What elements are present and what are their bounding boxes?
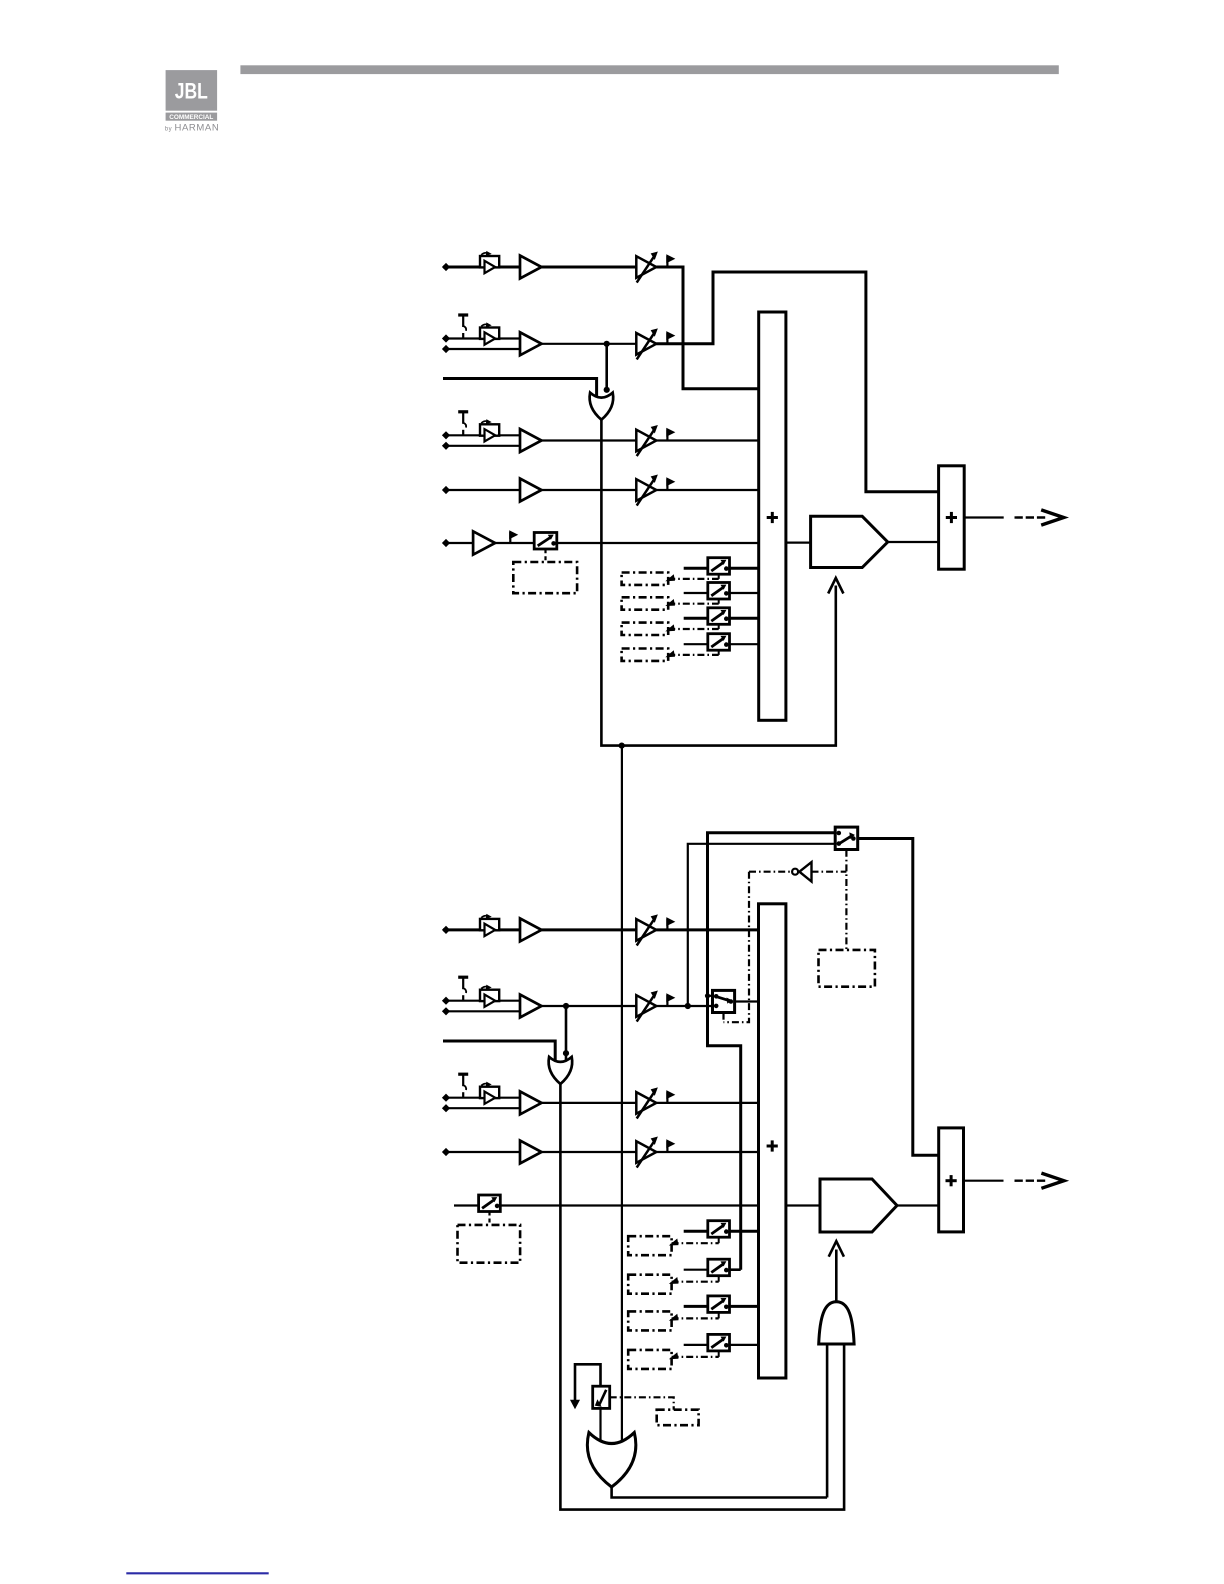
wire A ch3 input- line — [443, 445, 520, 447]
wire A ch2 tap to OR gate — [605, 344, 608, 390]
wire B ch2 tap to OR gate — [565, 1006, 568, 1060]
JBL logo square — [166, 70, 218, 111]
wire A aux input to buffer — [443, 542, 473, 544]
fader B4 (level control) — [636, 1137, 657, 1167]
node A ch2 tap junction — [604, 341, 610, 347]
wire A ch2 fader to output summer (up-over path) — [656, 272, 938, 492]
summing bus B (mix rectangle) — [759, 904, 786, 1378]
wire A ch1 fader to bus (down and right) — [656, 267, 758, 389]
wire B ch3 input- line — [443, 1107, 520, 1109]
dash-dot B aux4 control link — [672, 1356, 719, 1358]
arrow A aux1 control — [667, 575, 675, 581]
wire A aux2 pot to bus — [730, 592, 759, 594]
wire A aux3 pot to bus — [730, 617, 759, 620]
node A ch3 input+ terminal — [443, 432, 449, 438]
wire B ch1 fader to bus — [656, 928, 758, 931]
dash-dot B aux1 control link — [672, 1242, 719, 1244]
dash stem B5 pot control — [488, 1212, 490, 1225]
flag A3 (mute indicator) — [667, 429, 674, 441]
wire B aux1 source stub — [684, 1230, 708, 1233]
arrow B remote mute input (down) — [571, 1400, 579, 1408]
label box A5 (dash-dot) — [513, 562, 577, 593]
ducker A (priority attenuator) — [811, 516, 888, 567]
arrow A aux3 control — [667, 625, 675, 631]
node B ch2 tap junction (OR) — [563, 1003, 569, 1009]
wire A ch4 preamp to fader — [542, 489, 637, 491]
wire B ch3 input+ line — [443, 1097, 520, 1099]
phantom switch B2 — [458, 977, 468, 1001]
wire B master output (dashed) — [1015, 1179, 1048, 1181]
wire A ch3 preamp to fader — [542, 439, 637, 441]
dash-dot B aux2 control link — [672, 1281, 719, 1283]
arrow A aux4 control — [667, 651, 675, 657]
aux pot A3 — [708, 608, 730, 625]
wire B ch3 preamp to fader — [542, 1102, 637, 1104]
node A ch1 input terminal — [443, 264, 449, 270]
node B ch2 riser junction — [685, 1003, 691, 1009]
footer blue rule — [126, 1572, 268, 1574]
stub A aux1 pot control — [718, 574, 720, 579]
node B ch2 input+ terminal — [443, 998, 449, 1004]
node B ch3 input+ terminal — [443, 1095, 449, 1101]
dash-dot A aux3 control link — [668, 628, 719, 630]
label box B remote mute (dash-dot) — [657, 1410, 699, 1426]
wire B aux4 pot to bus — [730, 1344, 759, 1346]
wire B aux4 source stub — [684, 1344, 708, 1346]
buffer amp A5 — [473, 531, 495, 554]
wire B ch2 input- line — [443, 1010, 520, 1012]
dash-dot A aux1 control link — [668, 578, 719, 580]
dash-dot A aux4 control link — [668, 654, 719, 656]
gate box A1 — [480, 251, 499, 273]
stub B aux3 pot control — [718, 1312, 720, 1318]
gate box B3 — [480, 1082, 499, 1104]
wire A ch4 input line — [443, 489, 520, 491]
wire B aux3 source stub — [684, 1305, 708, 1308]
wire A ch3 input+ line — [443, 434, 520, 436]
fader A4 (level control) — [636, 475, 657, 505]
flag B4 (mute indicator) — [667, 1140, 674, 1152]
node A aux direct input terminal — [443, 540, 449, 546]
wire A ch3 fader to bus — [656, 439, 758, 441]
by HARMAN wordmark — [165, 122, 220, 133]
wire B ch1 preamp to fader — [542, 928, 637, 931]
gate box B1 — [480, 914, 499, 936]
dash-dot B remote mute control — [610, 1397, 674, 1409]
dome OR B (control combiner) — [819, 1302, 854, 1344]
output summer B — [939, 1128, 964, 1232]
stub B aux1 pot control — [718, 1237, 720, 1243]
wire A pot to bus — [557, 542, 759, 544]
arrow B ducker control (up chevron) — [829, 1241, 844, 1257]
priority switch B lower (selector box) — [713, 990, 735, 1012]
node A ch2 input- terminal — [443, 346, 449, 352]
fader A1 (level control) — [636, 252, 657, 282]
wire A link to section B (long vertical) — [621, 746, 623, 1446]
label box B aux4 (dash-dot) — [628, 1350, 671, 1369]
stub B riser to lower switch upper contact — [708, 995, 713, 997]
node A ch3 input- terminal — [443, 443, 449, 449]
wire A ch2 input+ line — [443, 337, 520, 339]
wire B ch2 preamp to fader — [542, 1005, 637, 1007]
dash-dot B inverter out to junction — [812, 871, 847, 873]
node B riser tee junction — [705, 993, 710, 998]
preamp B2 (differential) — [520, 995, 542, 1018]
level pot A5 — [534, 533, 557, 550]
node B ch2 input- terminal — [443, 1008, 449, 1014]
flag A4 (mute indicator) — [667, 478, 674, 490]
wire A aux4 pot to bus — [730, 643, 759, 645]
OR gate A (mute logic) — [590, 393, 614, 420]
dash-dot B override to upper switch — [845, 850, 847, 950]
flag B1 (mute indicator) — [667, 918, 674, 930]
summing bus A (mix rectangle) — [759, 312, 786, 720]
wire A ch2 preamp to fader — [542, 343, 637, 345]
dash-dot B inverter input link — [749, 871, 792, 873]
svg-text:JBL: JBL — [175, 78, 208, 103]
bottom OR gate B (link combiner) — [587, 1433, 636, 1488]
stub B aux4 pot control — [718, 1351, 720, 1357]
wire B aux input to level pot — [454, 1204, 479, 1206]
node A OR gate input junction — [604, 387, 610, 393]
wire B aux2 pot to music riser — [730, 1268, 741, 1271]
aux pot A1 — [708, 558, 730, 575]
wire B master output (solid) — [964, 1180, 1004, 1182]
wire A aux2 source stub — [684, 592, 708, 594]
arrow A master output — [1041, 510, 1064, 525]
wire A ch4 fader to bus — [656, 489, 758, 491]
label box B override (dash-dot) — [819, 950, 875, 987]
level pot B5 — [479, 1195, 501, 1212]
arrow B aux2 control — [670, 1278, 678, 1284]
aux pot B2 — [708, 1259, 730, 1276]
fader A3 (level control) — [636, 426, 657, 456]
header gray bar — [240, 65, 1058, 74]
preamp A3 (differential) — [520, 429, 542, 452]
phantom switch A3 — [458, 412, 468, 436]
wire A ch1 preamp to fader — [542, 266, 637, 269]
label box B aux3 (dash-dot) — [628, 1311, 671, 1330]
wire A OR output to ducker control — [601, 420, 835, 746]
inverter B (control logic) — [792, 862, 811, 881]
wire B OR output to dome OR right leg — [560, 1084, 844, 1510]
fader B3 (level control) — [636, 1088, 657, 1118]
label box A aux1 (dash-dot) — [622, 573, 669, 585]
preamp B3 (differential) — [520, 1091, 542, 1114]
wire B ch3 fader to bus — [656, 1102, 758, 1104]
plus symbol A output summer — [946, 512, 957, 523]
label box A aux2 (dash-dot) — [622, 597, 669, 609]
wire A ch1 input to gate box — [443, 266, 520, 269]
preamp A2 (differential) — [520, 332, 542, 355]
wire B ducker control shaft — [835, 1250, 838, 1302]
wire B ch4 input line — [443, 1151, 520, 1153]
node A link junction — [619, 743, 625, 749]
wire B ducker to output summer — [897, 1204, 939, 1206]
plus symbol B bus — [767, 1140, 778, 1151]
wire B priority switch output to output summer — [858, 839, 939, 1156]
wire B bus output to ducker — [786, 1204, 820, 1206]
preamp A4 — [520, 479, 542, 502]
node A ch4 input terminal — [443, 487, 449, 493]
ducker B (priority attenuator) — [820, 1179, 897, 1232]
label box A aux3 (dash-dot) — [622, 623, 669, 635]
arrow B master output — [1041, 1173, 1064, 1188]
wire B bottom OR output to dome left leg — [612, 1487, 828, 1498]
wire A buffer to level pot — [495, 542, 534, 544]
wire B pot to bus — [500, 1204, 758, 1206]
stub A aux3 pot control — [718, 624, 720, 629]
stub B aux2 pot control — [718, 1276, 720, 1282]
wire B aux2 source stub — [684, 1269, 708, 1271]
wire B ch4 preamp to fader — [542, 1151, 637, 1153]
arrow A ducker control (up chevron) — [828, 578, 843, 594]
wire A page-mute input (thick) to OR gate — [443, 379, 597, 399]
arrow B aux3 control — [670, 1315, 678, 1321]
fader A2 (level control) — [636, 329, 657, 359]
phantom switch A2 — [458, 315, 468, 339]
wire B remote pot to bottom OR — [599, 1408, 601, 1446]
gate box A3 — [480, 420, 499, 442]
stub A aux2 pot control — [718, 599, 720, 604]
wire A aux4 source stub — [684, 643, 708, 645]
wire B page-mute input (thick) to OR gate — [443, 1041, 555, 1063]
wire B dome left leg — [826, 1344, 829, 1498]
fader B2 (level control) — [636, 991, 657, 1021]
label box B aux1 (dash-dot) — [628, 1236, 671, 1255]
node B OR gate input junction — [563, 1050, 569, 1056]
label box B5 (dash-dot) — [458, 1225, 521, 1263]
wire A ducker to output summer — [888, 541, 939, 543]
flag A2 (mute indicator) — [667, 332, 674, 344]
aux pot B4 — [708, 1334, 730, 1351]
aux pot A4 — [708, 634, 730, 651]
wire B aux1 pot to bus — [730, 1230, 759, 1233]
OR gate B (mute logic) — [549, 1057, 573, 1084]
dash-dot B lower switch control stub — [722, 1013, 724, 1023]
wire B ch2 input+ line — [443, 1000, 520, 1002]
aux pot B3 — [708, 1296, 730, 1313]
arrow B aux4 control — [670, 1353, 678, 1359]
wire B ch4 fader to bus — [656, 1151, 758, 1153]
aux pot A2 — [708, 583, 730, 600]
output summer A — [939, 466, 965, 569]
dash stem A5 pot control — [544, 549, 546, 562]
fader B1 (level control) — [636, 915, 657, 945]
flag A5 (mute indicator) — [510, 531, 517, 543]
wire B aux3 pot to bus — [730, 1305, 759, 1308]
wire A aux1 source stub — [684, 567, 708, 570]
wire B music riser (pot2 up to priority switch) — [708, 833, 836, 1270]
preamp B1 — [520, 918, 542, 941]
node B ch3 input- terminal — [443, 1105, 449, 1111]
priority switch B upper (selector box) — [835, 827, 858, 849]
node B ch4 input terminal — [443, 1149, 449, 1155]
gate box A2 — [480, 323, 499, 345]
wire B lower switch output to bus — [735, 1000, 759, 1002]
stub A aux4 pot control — [718, 650, 720, 655]
wire A aux3 source stub — [684, 617, 708, 620]
JBL commercial bar — [166, 113, 218, 121]
node A ch2 input+ terminal — [443, 335, 449, 341]
gate box B2 — [480, 985, 499, 1007]
remote mute pot B (bottom switch) — [593, 1386, 610, 1408]
dash-dot B control drop to lower switch — [724, 872, 750, 1023]
phantom switch B3 — [458, 1074, 468, 1098]
arrow A aux2 control — [667, 600, 675, 606]
flag A1 (mute indicator) — [667, 255, 674, 267]
wire A master output (solid) — [964, 516, 1004, 518]
wire B ch1 input to gate box — [443, 928, 520, 931]
flag B2 (mute indicator) — [667, 994, 674, 1006]
wire A aux1 pot to bus — [730, 567, 759, 570]
svg-text:COMMERCIAL: COMMERCIAL — [169, 114, 213, 121]
wire B remote mute hook — [575, 1364, 601, 1401]
flag B3 (mute indicator) — [667, 1091, 674, 1103]
preamp A1 — [520, 256, 542, 279]
plus symbol B output summer — [946, 1175, 957, 1186]
plus symbol A bus — [767, 512, 778, 523]
wire B ch2 tap riser to priority switch upper — [688, 844, 835, 1006]
wire A master output (dashed) — [1015, 516, 1047, 518]
label box A aux4 (dash-dot) — [622, 649, 669, 661]
wire B ch2 fader to priority switch — [656, 1005, 712, 1007]
wire A bus output to ducker — [786, 541, 811, 543]
dash-dot A aux2 control link — [668, 603, 719, 605]
arrow B aux1 control — [670, 1239, 678, 1245]
aux pot B1 — [708, 1221, 730, 1238]
node B ch1 input terminal — [443, 927, 449, 933]
wire A ch2 input- line — [443, 348, 520, 350]
preamp B4 — [520, 1141, 542, 1164]
dash-dot B aux3 control link — [672, 1317, 719, 1319]
label box B aux2 (dash-dot) — [628, 1275, 671, 1294]
